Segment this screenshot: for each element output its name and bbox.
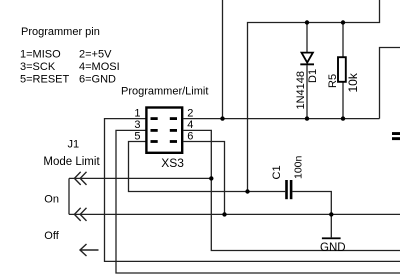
wire: pin2 horizontal rail [184,118,380,120]
wire: R5 bottom lead [342,82,344,119]
svg-text:6: 6 [187,131,193,143]
wire: pin5 to C1 left plate [129,142,286,192]
XS3 pin pad 5 [151,140,158,143]
junction dot pin2/top feed [220,116,224,120]
svg-text:1: 1 [134,108,140,120]
ground symbol bar [322,237,341,239]
svg-text:C1: C1 [271,165,283,179]
connector XS3 body [146,108,182,153]
svg-text:R5: R5 [327,74,339,88]
junction dot +5V rail to C1 wire [245,189,249,193]
junction dot pin6 / ground rail [222,212,226,216]
junction dot GND drop / ground rail [329,212,333,216]
junction dot pin4 / J1 upper line [209,176,213,180]
wire: J1 upper contact line to pin4 [69,177,211,179]
wire: J1 lower contact / ground rail [69,213,400,215]
svg-text:2=+5V: 2=+5V [79,49,112,61]
Off arrow [80,244,99,256]
svg-text:10k: 10k [346,72,360,92]
svg-text:3=SCK: 3=SCK [20,61,56,73]
wire: R5 top lead [342,23,344,58]
svg-text:4=MOSI: 4=MOSI [79,61,120,73]
svg-text:3: 3 [134,119,140,131]
svg-text:Mode Limit: Mode Limit [43,156,100,168]
wire: pin1 to bottom bus [105,119,400,262]
svg-text:5=RESET: 5=RESET [20,74,69,86]
connector J1 chevron lower [74,208,86,221]
wire: right stub at y=47 down to pin2 rail [380,48,400,119]
wire: C1 right plate to GND [292,192,331,238]
wire: D1 top lead [306,23,308,53]
junction dot D1 top [305,20,309,24]
svg-text:Programmer pin: Programmer pin [21,26,100,38]
svg-text:Programmer/Limit: Programmer/Limit [121,85,208,97]
connector J1 chevron upper [74,172,86,185]
wire: pin3 to bottom bus [116,130,400,273]
svg-text:1N4148: 1N4148 [295,71,307,110]
svg-text:1=MISO: 1=MISO [20,49,61,61]
XS3 pin pad 4 [170,129,177,132]
svg-text:XS3: XS3 [161,156,184,170]
wire: +5V top rail with corner down to C1 [248,0,380,192]
svg-text:GND: GND [320,242,346,254]
resistor R5 body [338,57,346,82]
off-sheet connection mark at right edge [392,132,400,140]
svg-text:J1: J1 [68,139,80,151]
svg-text:4: 4 [187,119,193,131]
junction dot R5 top [341,20,345,24]
svg-text:100n: 100n [293,155,305,179]
svg-text:5: 5 [134,131,140,143]
wire: vertical from top edge to pin2 rail (node +5V feed) [222,0,224,119]
wire: pin4 down and right along bottom [184,130,400,250]
junction dot D1 bottom [305,116,309,120]
svg-text:D1: D1 [307,69,319,83]
capacitor C1 plates [285,180,292,199]
diode D1 symbol [300,53,314,66]
XS3 pin pad 6 [170,140,177,143]
svg-text:Off: Off [44,230,59,242]
XS3 pin pad 3 [151,129,158,132]
wire: J1 bracket vertical [68,178,70,214]
svg-text:2: 2 [187,108,193,120]
wire: pin6 down to ground rail [184,142,225,215]
junction dot R5 bottom [341,116,345,120]
svg-text:6=GND: 6=GND [79,74,116,86]
XS3 pin pad 1 [151,117,158,120]
svg-text:On: On [44,193,59,205]
XS3 pin pad 2 [170,117,177,120]
wire: D1 bottom lead [306,65,308,118]
